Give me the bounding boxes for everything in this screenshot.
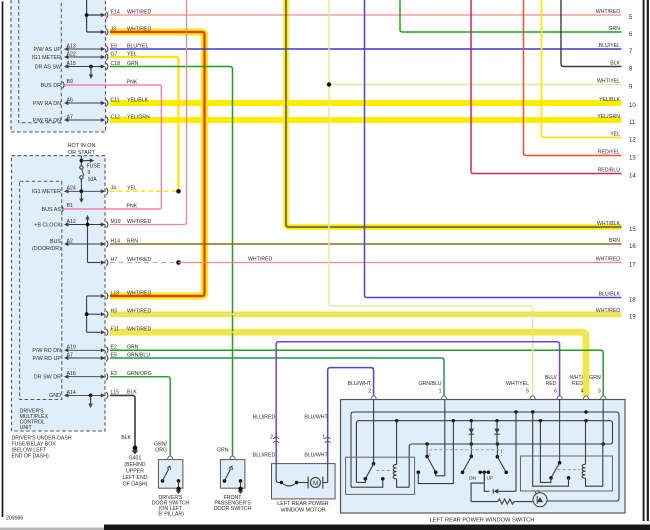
svg-text:A2: A2 [67, 238, 73, 244]
pin A13-E9 arrow and connector [65, 48, 104, 50]
svg-text:BLK: BLK [610, 61, 620, 67]
driver's door switch ground [176, 487, 180, 491]
svg-text:WHT/RED: WHT/RED [248, 257, 272, 263]
svg-text:WHT/RED: WHT/RED [127, 9, 151, 15]
svg-text:WHT/RED: WHT/RED [127, 219, 151, 225]
svg-text:UPPER: UPPER [126, 469, 144, 475]
switch pin 2 arc [371, 396, 377, 400]
svg-text:END OF DASH): END OF DASH) [12, 454, 49, 460]
svg-text:19: 19 [629, 313, 636, 320]
wire BLK from top, row 8 [561, 0, 622, 67]
svg-text:11: 11 [629, 119, 636, 126]
svg-text:YEL: YEL [610, 132, 620, 138]
svg-text:YEL: YEL [127, 51, 137, 57]
relay K1 coil [393, 464, 396, 478]
switch pin1 to UP contact [444, 400, 446, 476]
svg-text:UNIT: UNIT [20, 425, 33, 431]
pin L18 connector [101, 294, 105, 298]
junction dot at E14 feeder [85, 13, 89, 17]
svg-text:RED: RED [546, 381, 557, 387]
ground G401 [133, 446, 138, 451]
wire RED/YEL from top, row 13 [524, 0, 622, 156]
pin A14-L15 arrow and connector [65, 394, 104, 396]
svg-text:WHT/: WHT/ [570, 375, 584, 381]
svg-text:BLU/RED: BLU/RED [253, 414, 276, 420]
switch bus B [356, 421, 612, 488]
svg-text:J4: J4 [111, 186, 117, 192]
switch diode D1 [470, 421, 472, 444]
bottom window bar [104, 525, 650, 530]
wire WHT/BLK core row 15 [286, 0, 622, 227]
svg-text:BLU/BLK: BLU/BLK [599, 292, 621, 298]
svg-text:WHT/RED: WHT/RED [127, 257, 151, 263]
svg-text:2: 2 [270, 435, 273, 441]
svg-text:F11: F11 [111, 327, 120, 333]
svg-text:E5: E5 [111, 352, 117, 358]
svg-text:10A: 10A [88, 177, 98, 183]
svg-text:E2: E2 [111, 345, 117, 351]
wire BLU/BLK from top, row 18 [365, 0, 622, 298]
svg-text:M19: M19 [111, 219, 121, 225]
switch bus A [351, 412, 619, 501]
svg-text:L15: L15 [111, 390, 120, 396]
svg-text:GRN/ORG: GRN/ORG [127, 371, 152, 377]
switch resistor R1 [471, 501, 498, 503]
switch diode D2 [496, 421, 498, 444]
svg-text:2: 2 [368, 389, 371, 395]
relay K1 mech link dashed [377, 470, 392, 472]
svg-text:(BEHIND: (BEHIND [124, 462, 146, 468]
svg-text:BLU/YEL: BLU/YEL [127, 43, 148, 49]
pin H7 connector [101, 260, 105, 264]
svg-text:WHT/YEL: WHT/YEL [506, 381, 529, 387]
svg-text:WHT/RED: WHT/RED [127, 309, 151, 315]
switch mech link dashed (rocker) [430, 450, 502, 456]
svg-text:9: 9 [88, 170, 91, 176]
wire L15 BLK to ground G401 [110, 395, 135, 446]
pin B1 bracket [62, 206, 64, 213]
svg-text:OR START: OR START [68, 150, 95, 156]
pin A16-E3 arrow and connector [65, 376, 104, 378]
svg-text:BLU/WHT: BLU/WHT [348, 381, 372, 387]
svg-text:DOOR SWITCH: DOOR SWITCH [214, 506, 252, 512]
switch pin 6 arc [557, 396, 563, 400]
svg-text:LEFT REAR POWER WINDOW SWITCH: LEFT REAR POWER WINDOW SWITCH [430, 518, 535, 524]
svg-text:4: 4 [581, 389, 584, 395]
svg-text:BRN: BRN [127, 238, 138, 244]
page right double border [643, 0, 645, 521]
svg-text:FUSE: FUSE [87, 164, 101, 170]
svg-text:UP: UP [487, 475, 494, 481]
pin A7-E5 arrow and connector [65, 357, 104, 359]
switch relay K1 box [346, 457, 415, 494]
pin A15-C18 arrow and connector [65, 66, 104, 68]
svg-text:P/W RA DN: P/W RA DN [33, 101, 61, 107]
svg-text:18: 18 [629, 297, 636, 304]
svg-text:13: 13 [629, 155, 636, 162]
svg-text:A22: A22 [67, 51, 76, 57]
svg-text:YEL/BLK: YEL/BLK [127, 97, 149, 103]
wire E9 BLU/YEL row 7 [110, 48, 622, 50]
svg-text:14: 14 [629, 173, 636, 180]
svg-text:A24: A24 [67, 186, 76, 192]
svg-text:YEL/GRN: YEL/GRN [597, 114, 620, 120]
svg-text:RED: RED [572, 381, 583, 387]
branch arrow below A15 [89, 65, 93, 69]
svg-text:H3: H3 [111, 309, 118, 315]
switch pin 1 arc [441, 396, 447, 400]
wire F11 WHT/RED core to switch pin 4 [110, 332, 586, 396]
internal jumper L18-H3-F11 [86, 296, 88, 332]
svg-text:209986: 209986 [6, 516, 23, 522]
svg-text:BLU/RED: BLU/RED [253, 452, 276, 458]
switch UP contact [426, 444, 428, 456]
svg-text:WHT/BLK: WHT/BLK [597, 221, 621, 227]
relay K2 mech link dashed [558, 469, 581, 471]
svg-text:LEFT REAR POWER: LEFT REAR POWER [277, 501, 329, 507]
wire YEL from top, row 12 [542, 0, 622, 138]
svg-text:WHT/YEL: WHT/YEL [597, 79, 620, 85]
svg-text:YEL/BLK: YEL/BLK [599, 97, 621, 103]
pin A12-M19 arrow and connector [65, 224, 104, 226]
svg-text:6: 6 [554, 389, 557, 395]
highlight band J3-to-L18 traced wire [110, 32, 205, 296]
branch arrow below A14 [89, 394, 93, 398]
svg-text:‘B’ PILLAR): ‘B’ PILLAR) [157, 512, 184, 518]
svg-text:P/W AS UP: P/W AS UP [33, 47, 61, 53]
switch pin 5 arc [530, 396, 536, 400]
svg-text:10: 10 [629, 102, 636, 109]
svg-text:P/W RD DN: P/W RD DN [32, 348, 61, 354]
page left border [2, 2, 4, 518]
svg-text:BLK: BLK [121, 435, 131, 441]
svg-text:BLU/YEL: BLU/YEL [599, 43, 620, 49]
splice dot J4/G7 [176, 189, 181, 194]
wire J3 WHT/RED traced core (red) [110, 32, 205, 296]
front passenger's door switch ground [238, 487, 242, 491]
svg-text:A13: A13 [67, 43, 76, 49]
relay K1 contact [373, 400, 375, 464]
highlight band H3 WHT/RED row 19 [110, 311, 622, 317]
wire E14 WHT/RED row 5 [110, 14, 622, 16]
wire M19 WHT/RED [110, 0, 187, 225]
svg-text:+B CLOCK: +B CLOCK [34, 222, 61, 228]
wire GRN from top, row 6 [400, 0, 622, 32]
svg-text:B1: B1 [67, 203, 73, 209]
svg-text:WHT/RED: WHT/RED [596, 257, 620, 263]
splice dot H7 [176, 260, 181, 265]
svg-text:GRN: GRN [127, 345, 139, 351]
svg-text:RED/BLU: RED/BLU [598, 168, 621, 174]
pin A24-J4 arrow and connector [65, 190, 104, 192]
pin A19-E2 arrow and connector [65, 349, 104, 351]
front passenger's door switch pin arc [230, 456, 236, 460]
svg-text:GRN: GRN [608, 26, 620, 32]
pin J3 connector [101, 30, 105, 34]
motor pin 2 break marks [273, 437, 279, 439]
svg-text:GRN: GRN [127, 61, 139, 67]
svg-text:WHT/RED: WHT/RED [596, 308, 620, 314]
multiplex control unit inner dashed box (upper) [19, 0, 62, 123]
wire C18 GRN to passenger door switch [110, 67, 233, 456]
svg-text:YEL/GRN: YEL/GRN [127, 114, 150, 120]
svg-text:B9: B9 [67, 79, 73, 85]
svg-text:5: 5 [526, 389, 529, 395]
svg-text:IG1 METER: IG1 METER [32, 189, 61, 195]
svg-text:LEFT END: LEFT END [123, 475, 148, 481]
svg-text:WHT/RED: WHT/RED [127, 26, 151, 32]
svg-text:BUS: BUS [50, 239, 61, 245]
svg-text:BLU/WHT: BLU/WHT [304, 452, 328, 458]
svg-text:ORG: ORG [155, 448, 167, 454]
wire vertical feeder to E14/J3 from top [86, 0, 88, 32]
svg-text:(DOOR/DR): (DOOR/DR) [32, 246, 61, 252]
svg-text:A6: A6 [67, 97, 73, 103]
svg-text:15: 15 [629, 226, 636, 233]
switch common node wiring [484, 472, 489, 491]
driver under-dash fuse/relay box (lower section) [12, 156, 106, 431]
svg-text:A15: A15 [67, 61, 76, 67]
svg-text:GRN: GRN [217, 448, 229, 454]
svg-text:3: 3 [598, 389, 601, 395]
wire H7 WHT/RED solid row 17 [179, 262, 622, 264]
svg-text:C12: C12 [111, 114, 121, 120]
svg-text:BUS DR: BUS DR [41, 83, 61, 89]
left rear power window motor box [272, 464, 336, 499]
svg-text:WINDOW MOTOR: WINDOW MOTOR [280, 508, 325, 514]
svg-text:A19: A19 [67, 345, 76, 351]
wire B9 PNK bus loop [64, 85, 161, 209]
highlight band WHT/BLK feeder row 15 [286, 0, 622, 227]
svg-text:A7: A7 [67, 352, 73, 358]
svg-text:A7: A7 [67, 114, 73, 120]
pin A6-C11 arrow and connector [65, 102, 104, 104]
pin A7-C12 arrow and connector [65, 119, 104, 121]
svg-text:1: 1 [322, 435, 325, 441]
relay K2 contact [559, 400, 561, 463]
wire WHT/YEL branch row 9 [329, 84, 622, 86]
wire H3 WHT/RED core row 19 [110, 313, 622, 315]
svg-text:GRN/BLU: GRN/BLU [127, 352, 150, 358]
wire BLU/WHT motor pin1 to switch pin 2 [328, 368, 374, 444]
wire RED/BLU from top, row 14 [471, 0, 622, 174]
highlight band F11 WHT/RED to switch pin 4 [110, 332, 586, 396]
svg-text:DR SW DR: DR SW DR [34, 375, 61, 381]
switch DN2 contact [496, 444, 498, 457]
svg-text:DN: DN [469, 475, 476, 481]
junction dot WHT/YEL row 9 [327, 82, 331, 86]
svg-text:BRN: BRN [609, 238, 620, 244]
svg-text:WHT/RED: WHT/RED [127, 290, 151, 296]
left rear power window switch box [341, 400, 626, 514]
switch pin 3 arc [600, 396, 606, 400]
pin E14 connector [101, 13, 105, 17]
front passenger's door switch contact [223, 479, 227, 483]
svg-text:A14: A14 [67, 390, 76, 396]
pin A2-H14 arrow and connector [65, 243, 104, 245]
front passenger's door switch box [220, 460, 245, 489]
switch DN/UP common contacts [479, 471, 491, 473]
svg-text:RED/YEL: RED/YEL [598, 150, 620, 156]
pin F11 connector [101, 330, 105, 334]
pin H3 connector [101, 312, 105, 316]
switch bus dots [395, 419, 398, 422]
wire G7 YEL [110, 57, 179, 191]
svg-text:P/W RA DN: P/W RA DN [33, 118, 61, 124]
wire E3 GRN/ORG to driver door switch [110, 377, 170, 456]
wire H14 BRN row 16 [110, 243, 622, 245]
fuse 9 10A with feed from HOT IN ON [80, 156, 82, 166]
svg-text:A16: A16 [67, 371, 76, 377]
svg-text:OF DASH): OF DASH) [123, 482, 148, 488]
svg-text:YEL: YEL [127, 186, 137, 192]
svg-text:12: 12 [629, 137, 636, 144]
svg-text:A12: A12 [67, 219, 76, 225]
svg-text:H7: H7 [111, 257, 118, 263]
wire BLU/RED motor pin2 to switch pin 6 [276, 342, 559, 444]
internal link A12 to H7 [87, 218, 89, 263]
svg-text:BLU/WHT: BLU/WHT [304, 414, 328, 420]
driver's door switch box [158, 460, 183, 489]
svg-text:L18: L18 [111, 290, 120, 296]
motor pin 1 break marks [325, 437, 331, 439]
wire WHT/YEL from top to switch pin 5 [329, 0, 533, 396]
highlight band C11 YEL/BLK row 10 [110, 100, 622, 106]
wire BLU/RED motor lead lower [275, 432, 277, 438]
svg-text:BUS AS: BUS AS [42, 207, 62, 213]
driver multiplex control unit inner dashed box (lower) [20, 181, 62, 399]
svg-text:G7: G7 [111, 51, 118, 57]
svg-text:E14: E14 [111, 9, 120, 15]
wire J4 YEL dashed [110, 190, 179, 192]
svg-text:16: 16 [629, 243, 636, 250]
svg-text:G401: G401 [129, 456, 142, 462]
svg-text:HOT IN ON: HOT IN ON [68, 143, 96, 149]
svg-text:P/W RD UP: P/W RD UP [33, 356, 62, 362]
wire E5 GRN/BLU to switch pin 1 [110, 358, 444, 396]
svg-text:BLK: BLK [127, 390, 137, 396]
switch relay K2 box [521, 456, 613, 491]
svg-text:E3: E3 [111, 371, 117, 377]
driver's door switch pin arc [167, 456, 173, 460]
svg-text:C11: C11 [111, 97, 120, 103]
svg-text:BLU/: BLU/ [545, 375, 557, 381]
svg-text:17: 17 [629, 262, 636, 269]
svg-text:GND: GND [49, 393, 61, 399]
svg-text:WHT/RED: WHT/RED [127, 327, 151, 333]
motor M1 internal wiring [276, 464, 281, 483]
svg-text:E9: E9 [111, 43, 117, 49]
switch DN/UP divider [483, 474, 485, 481]
switch diode D3 (to bus A) [494, 489, 499, 494]
switch LED [533, 493, 547, 507]
relay K2 coil [582, 464, 585, 478]
svg-text:WHT/RED: WHT/RED [596, 9, 620, 15]
switch DN contact [470, 444, 472, 456]
svg-text:IG1 METER: IG1 METER [32, 55, 61, 61]
driver's door switch contact [161, 479, 165, 483]
wire E2 GRN to switch pin 3 [110, 350, 603, 396]
svg-text:PNK: PNK [127, 203, 138, 209]
wire H7 WHT/RED dashed segment [110, 262, 179, 264]
svg-text:C18: C18 [111, 61, 121, 67]
highlight band C12 YEL/GRN row 11 [110, 117, 622, 123]
svg-text:1: 1 [439, 389, 442, 395]
svg-text:M: M [313, 480, 318, 487]
svg-text:DR AS SW: DR AS SW [35, 64, 62, 70]
svg-text:GRN/BLU: GRN/BLU [418, 381, 441, 387]
svg-text:PNK: PNK [127, 79, 138, 85]
wire stub to pin E14 [87, 14, 105, 16]
switch pin 4 arc [583, 396, 589, 400]
svg-text:J3: J3 [111, 26, 117, 32]
svg-text:H14: H14 [111, 238, 121, 244]
svg-text:GRN: GRN [589, 375, 601, 381]
wire stub to pin J3 [87, 31, 105, 33]
pin B9 bracket [63, 82, 65, 89]
driver under-dash fuse/relay box (upper section, cut at top) [11, 0, 106, 132]
pin A22-G7 arrow and connector [65, 56, 104, 58]
wire L18 stub (under red core) [110, 295, 113, 297]
